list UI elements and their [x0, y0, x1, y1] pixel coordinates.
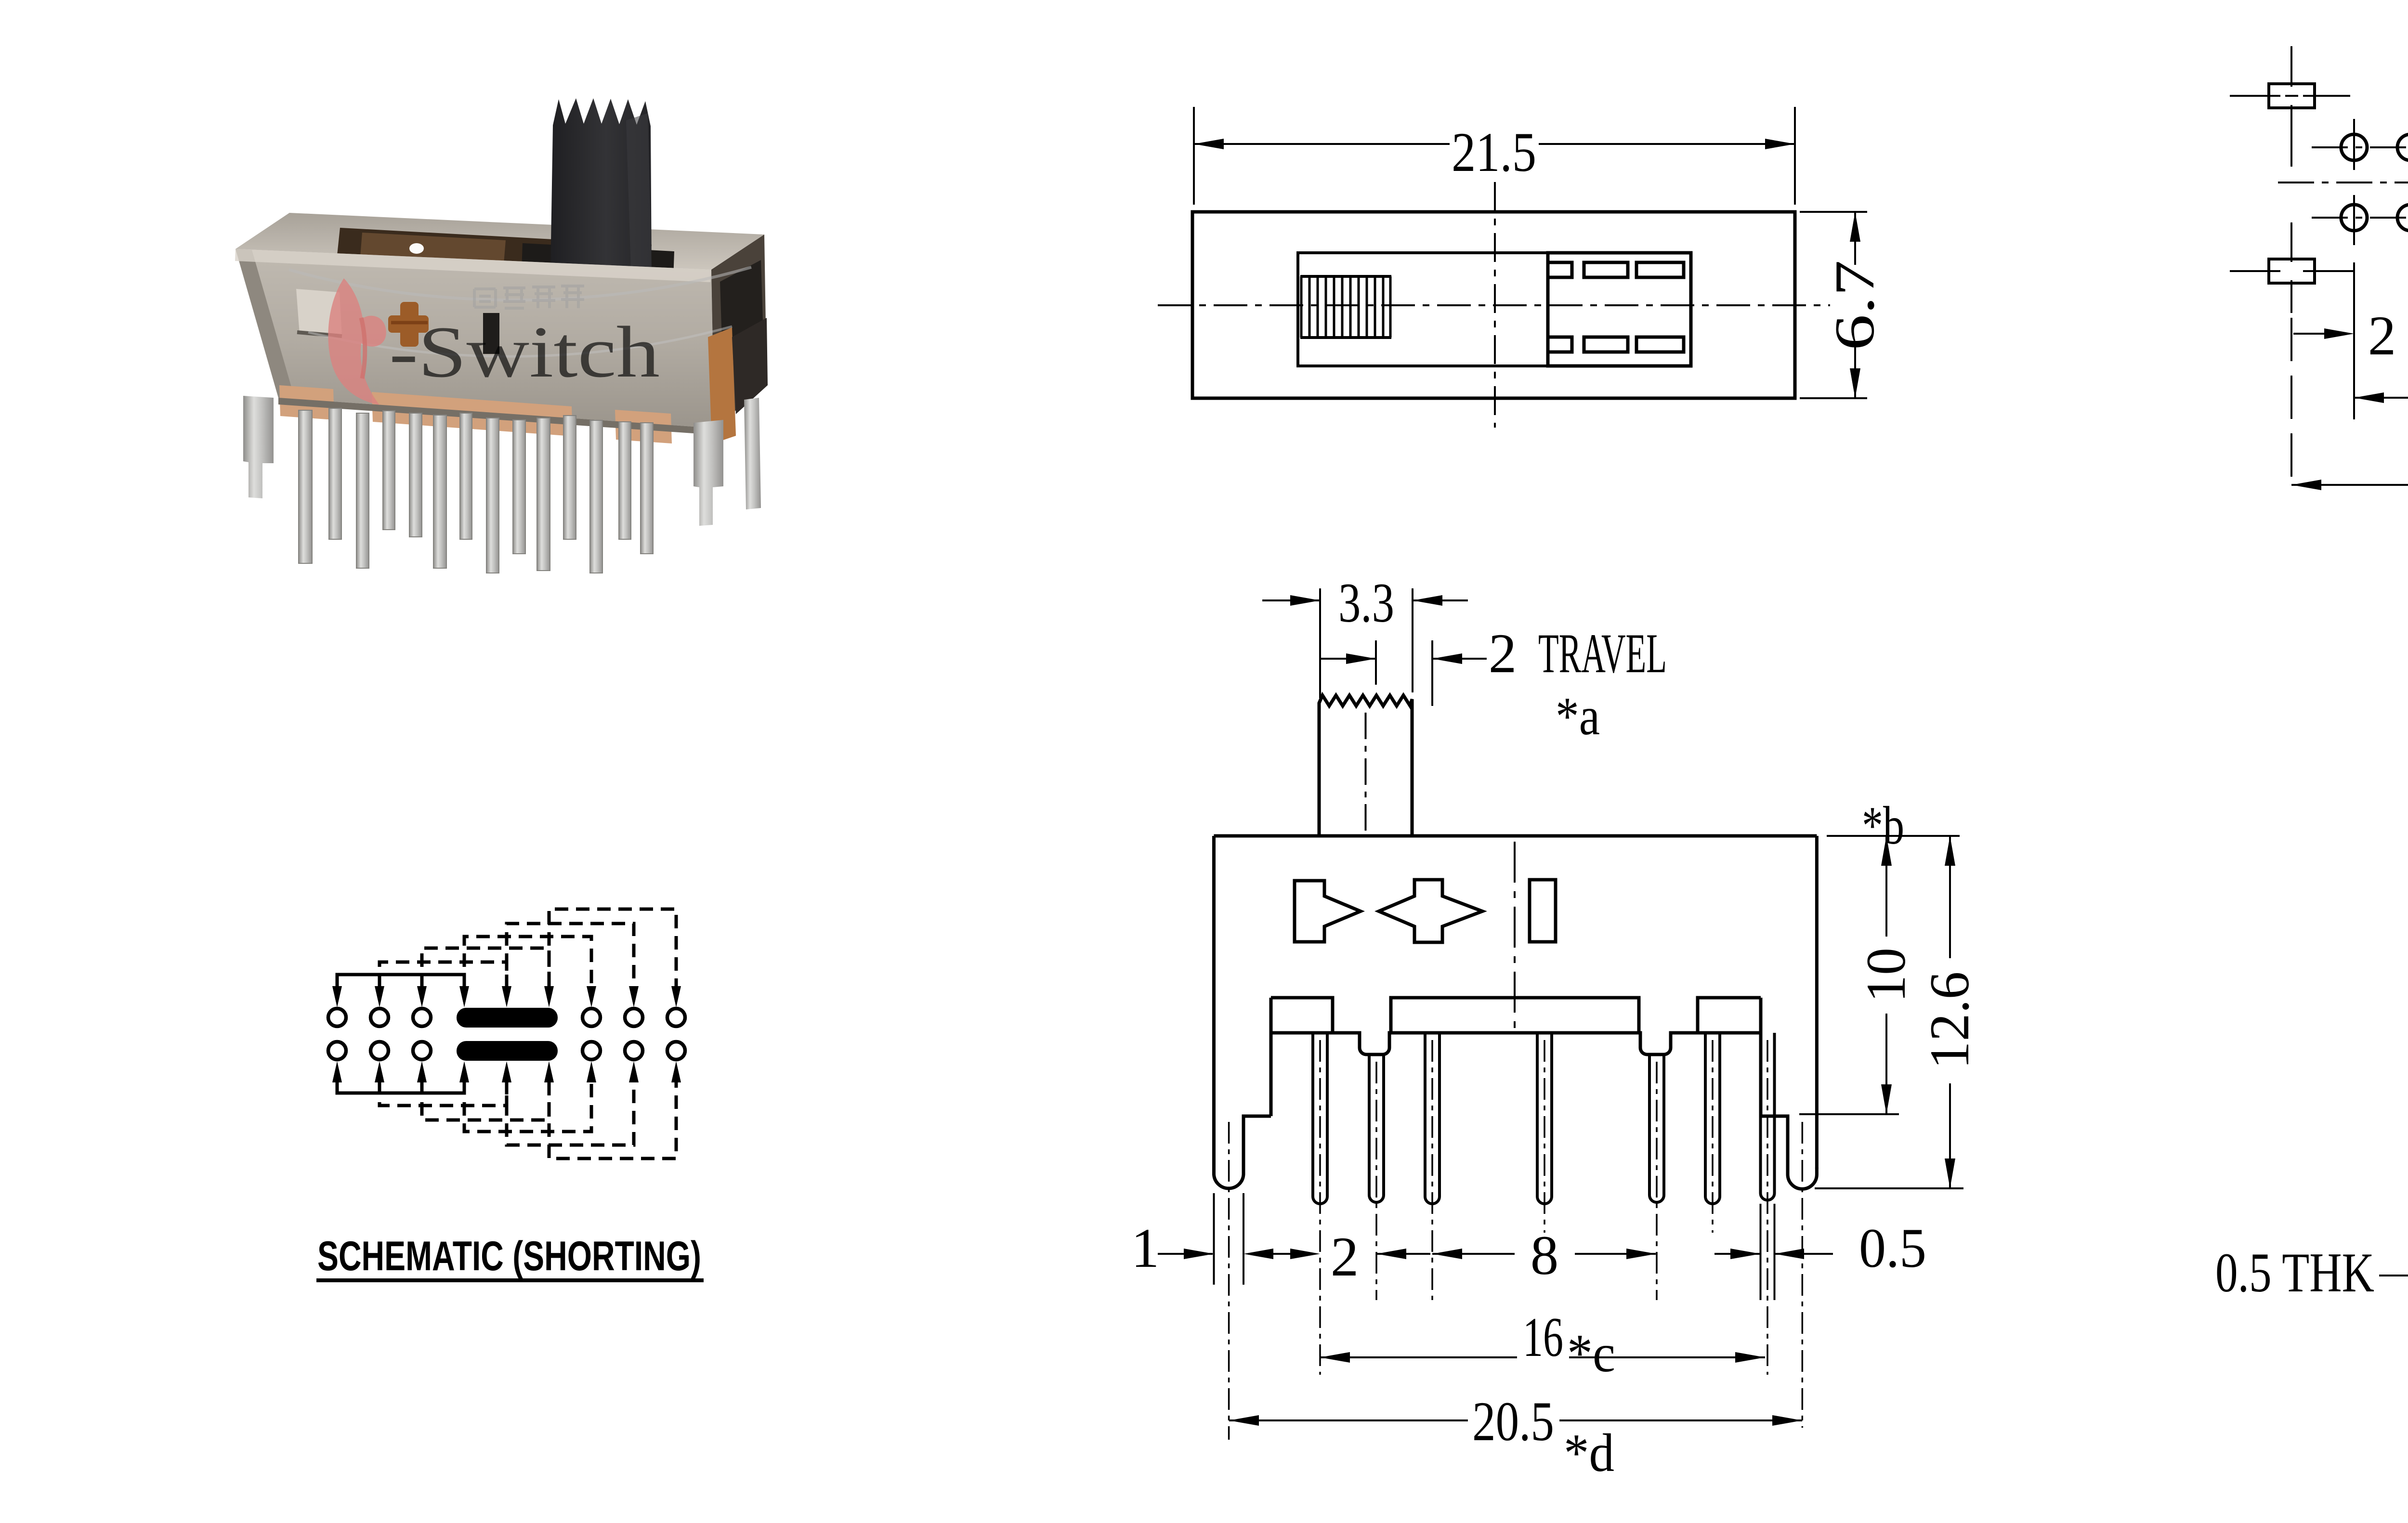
dimension 20.5 line: [2291, 484, 2408, 486]
photo: front face top edge highlight: [235, 249, 711, 282]
0.5 THK arrow: [2379, 1275, 2408, 1276]
PCBVIEW: [2230, 46, 2408, 490]
terminal window top middle: [1584, 262, 1628, 277]
bracket dashed top 4-7: [464, 937, 591, 988]
pin 4: [1537, 1033, 1552, 1204]
photo: switch front face: [236, 249, 714, 428]
dimension 6.7 arrowheads: [1850, 212, 1860, 398]
photo: watermark swoosh: [289, 267, 751, 300]
svg-text:-Switch: -Switch: [389, 312, 660, 392]
hole crosshair verticals: [2354, 91, 2408, 291]
photo: pins row: [299, 408, 653, 573]
dimension 3.3 extension lines: [1320, 588, 1413, 698]
bracket dashed bottom 3-6: [422, 1081, 549, 1120]
svg-text:21.5: 21.5: [1452, 121, 1536, 183]
dimension 21.5 arrowheads: [1194, 139, 1795, 149]
left tab: [1271, 998, 1333, 1033]
double arrow icon: [1379, 880, 1482, 942]
terminal window top right: [1636, 262, 1684, 277]
body centerline: [1514, 842, 1516, 1030]
mount pad bottom-left: [2269, 259, 2315, 283]
dimension 0.5 line and arrows: [1714, 1253, 1833, 1255]
body right edge: [1815, 836, 1819, 1169]
pin 7: [1761, 1033, 1775, 1200]
pin 6: [1705, 1033, 1720, 1204]
arrowheads bottom row: [332, 1061, 681, 1082]
photo: small black slot on face: [483, 313, 499, 354]
body left edge: [1212, 836, 1216, 1169]
terminal window bottom right: [1636, 337, 1684, 352]
bracket dashed top 2-5: [380, 962, 507, 988]
pad bottom-left extension to 20.5: [2290, 318, 2292, 486]
small window icon: [1530, 880, 1556, 942]
photo: right end face: [711, 234, 767, 428]
svg-text:3.3: 3.3: [1338, 572, 1394, 634]
svg-text:16: 16: [1523, 1306, 1563, 1368]
top view body outline: [1192, 212, 1795, 398]
right mounting leg: [1761, 1116, 1817, 1189]
star-b extension line: [1827, 835, 1960, 837]
bracket solid bottom: [337, 1081, 464, 1093]
bracket dashed bottom 2-5: [380, 1081, 507, 1106]
pin 3: [1425, 1033, 1440, 1204]
dimension 10 bottom extension: [1799, 1113, 1899, 1115]
dimension 12.6 line: [1949, 836, 1951, 1188]
dimension 3.3 line and arrows: [1262, 599, 1468, 601]
dimension 0.5 extension lines: [1761, 1204, 1775, 1300]
PHOTO: [235, 98, 768, 573]
dimension 21.5 line: [1194, 143, 1795, 145]
hole row top centerline: [2312, 146, 2408, 148]
bracket dashed top 5-8: [507, 924, 634, 988]
photo: right end copper strip: [708, 327, 736, 444]
hole row bottom centerline: [2312, 217, 2408, 219]
dimension 10 line: [1885, 836, 1887, 1114]
arrowheads top row: [332, 986, 681, 1007]
frame notch bottom: [1549, 337, 1572, 352]
dimension 2 leader and arrows: [2293, 333, 2408, 335]
slider body: [1298, 253, 1548, 366]
photo: copper strip bottom middle: [372, 392, 573, 436]
pad bottom-left centerlines: [2230, 222, 2354, 313]
svg-text:2: 2: [1489, 623, 1517, 685]
photo: left end shade: [236, 249, 295, 399]
dimension 1 line and arrows: [1158, 1253, 1315, 1255]
svg-text:TRAVEL: TRAVEL: [1538, 623, 1667, 685]
pad top-left centerlines: [2230, 46, 2350, 167]
photo: left mounting bracket: [243, 396, 274, 498]
svg-text:2: 2: [1331, 1226, 1359, 1288]
photo: right end black block: [720, 260, 763, 356]
photo: watermark chinese characters: [474, 286, 584, 308]
pin 5: [1649, 1054, 1664, 1202]
pin 2: [1369, 1054, 1384, 1202]
photo: knob base in slot: [522, 243, 674, 279]
photo: copper cross hole: [388, 302, 429, 347]
dimension 2 line and arrows (front): [1376, 1253, 1430, 1255]
photo: right mounting bracket: [694, 420, 723, 526]
slider contact bottom: [457, 1041, 558, 1061]
schematic title underline: [316, 1278, 704, 1282]
body top edge: [1214, 834, 1817, 838]
SCHEMATIC: [328, 909, 685, 1159]
photo: top slot opening: [337, 228, 652, 272]
middle centerline: [2278, 182, 2408, 183]
middle plate: [1391, 998, 1639, 1033]
photo: far right pin: [744, 398, 761, 509]
pin 1: [1313, 1033, 1327, 1204]
horizontal centerline: [1158, 304, 1830, 306]
left mounting leg: [1214, 1116, 1271, 1188]
knob centerline: [1365, 713, 1367, 834]
holes top row: [2341, 134, 2408, 160]
svg-text:1: 1: [1131, 1217, 1160, 1279]
right step vertical: [1759, 998, 1763, 1116]
mount pad top-left: [2269, 84, 2315, 108]
holes bottom row: [2341, 205, 2408, 231]
dimension 1 extension lines: [1214, 1193, 1244, 1285]
terminal circles top row: [328, 1009, 685, 1027]
photo: switch top face: [236, 213, 764, 270]
slider contact top: [457, 1008, 558, 1028]
bracket dashed top 3-6: [422, 948, 549, 988]
terminal circles bottom row: [328, 1042, 685, 1060]
svg-text:*d: *d: [1564, 1423, 1614, 1483]
direction arrow icon: [1295, 881, 1361, 942]
bracket dashed bottom 6-9: [549, 1081, 676, 1159]
bracket dashed top 6-9: [549, 909, 676, 988]
extension line pin1 column: [2353, 262, 2355, 419]
svg-text:8: 8: [1531, 1224, 1559, 1287]
terminal window bottom middle: [1584, 337, 1628, 352]
dimension 12.6 bottom extension: [1815, 1187, 1963, 1189]
photo: actuator knob: [550, 98, 652, 273]
dimension 2 travel line and arrows: [1320, 658, 1487, 660]
svg-text:*b: *b: [1862, 796, 1904, 856]
svg-text:*a: *a: [1556, 687, 1600, 746]
photo: copper strip bottom right: [615, 410, 672, 443]
dimension 2 travel ticks: [1376, 640, 1432, 706]
photo: right end lower dark: [732, 318, 768, 414]
svg-text:6.7: 6.7: [1824, 260, 1886, 351]
svg-text:*c: *c: [1567, 1324, 1615, 1383]
left step vertical: [1269, 998, 1273, 1116]
dimension 21.5 extension lines: [1194, 107, 1795, 205]
svg-text:0.5: 0.5: [1859, 1217, 1926, 1279]
svg-text:SCHEMATIC (SHORTING): SCHEMATIC (SHORTING): [317, 1233, 701, 1279]
right tab: [1698, 998, 1761, 1033]
photo: copper strip bottom left: [279, 385, 334, 420]
svg-text:20.5: 20.5: [1472, 1391, 1554, 1453]
TOPVIEW: [1158, 107, 1867, 428]
photo: body bottom shadow edge: [278, 398, 714, 435]
SIDEVIEW: [2379, 674, 2408, 1425]
dimension 6.7 line: [1854, 212, 1856, 398]
svg-text:2: 2: [2368, 305, 2396, 367]
photo: white hole on top face: [409, 243, 424, 254]
dimension 16 line: [2354, 397, 2408, 399]
svg-text:10: 10: [1855, 948, 1917, 1002]
base bottom edge with contact notches: [1271, 1033, 1761, 1054]
photo: watermark pink logo b: [328, 278, 386, 405]
dimension 8 line (front): [1432, 1253, 1656, 1255]
bracket solid top: [337, 975, 464, 988]
dimension 6.7 extension lines: [1800, 212, 1867, 398]
dimension 16 line (front): [1320, 1356, 1765, 1358]
pin centerlines: [1229, 1040, 1803, 1440]
photo: knob right facet: [626, 113, 652, 271]
knurl hatch block: [1300, 276, 1391, 338]
bracket dashed bottom 4-7: [464, 1081, 591, 1132]
frame notch top: [1549, 262, 1572, 277]
svg-text:0.5 THK: 0.5 THK: [2215, 1242, 2374, 1304]
actuator knob with broken zigzag top: [1319, 695, 1412, 836]
bracket dashed bottom 5-8: [507, 1081, 634, 1145]
photo: bent tab notch: [296, 289, 342, 337]
contact frame: [1548, 253, 1691, 366]
vertical centerline: [1494, 182, 1496, 428]
dimension 20.5 line (front): [1229, 1419, 1802, 1421]
FRONTVIEW: [1158, 588, 1963, 1440]
svg-text:12.6: 12.6: [1919, 972, 1981, 1069]
